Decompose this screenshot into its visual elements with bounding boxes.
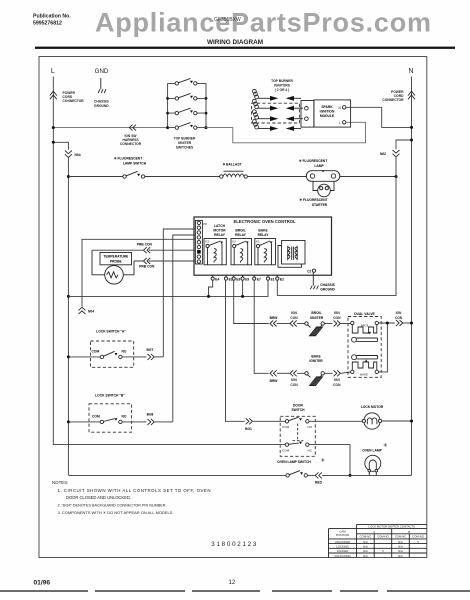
svg-text:CONNECTOR: CONNECTOR xyxy=(382,98,404,102)
wire ballast to fluorescent lamp xyxy=(247,176,306,178)
svg-text:BROIL: BROIL xyxy=(311,311,321,315)
switch row 1 xyxy=(168,78,206,85)
svg-text:✳ FLUORESCENT: ✳ FLUORESCENT xyxy=(299,198,327,202)
svg-text:AppliancePartsPros.com: AppliancePartsPros.com xyxy=(95,8,431,38)
svg-text:UNLOCKING: UNLOCKING xyxy=(334,554,351,558)
fluorescent starter xyxy=(299,181,334,207)
svg-text:SWITCHES: SWITCHES xyxy=(176,146,194,150)
svg-text:SPARK: SPARK xyxy=(321,105,333,109)
svg-text:N04: N04 xyxy=(75,153,81,157)
terminal E1 xyxy=(266,275,274,281)
diagram border frame xyxy=(39,57,427,558)
svg-text:L: L xyxy=(51,68,55,75)
svg-text:BROIL: BROIL xyxy=(235,229,245,233)
svg-text:TOP BURNER: TOP BURNER xyxy=(271,79,293,83)
svg-text:1. CIRCUIT SHOWN WITH ALL CONT: 1. CIRCUIT SHOWN WITH ALL CONTROLS SET T… xyxy=(58,488,211,493)
svg-text:ELECTRONIC OVEN CONTROL: ELECTRONIC OVEN CONTROL xyxy=(233,219,296,224)
svg-text:NO: NO xyxy=(308,425,313,429)
spark module igniter connector xyxy=(301,101,314,128)
svg-text:A: A xyxy=(373,530,375,534)
svg-text:B: B xyxy=(408,530,410,534)
svg-text:N: N xyxy=(338,106,341,110)
ballast xyxy=(220,163,248,179)
svg-text:LOCK MOTOR SWITCH CONTACTS: LOCK MOTOR SWITCH CONTACTS xyxy=(369,525,416,529)
transformer T1 xyxy=(278,241,305,268)
wire xyxy=(277,372,290,374)
lock switch B xyxy=(68,393,146,432)
svg-text:LOCK SWITCH "B": LOCK SWITCH "B" xyxy=(95,393,125,397)
svg-text:N02: N02 xyxy=(380,152,386,156)
connector IGN CON bake right xyxy=(334,370,341,376)
svg-text:N/A: N/A xyxy=(398,540,403,544)
svg-text:OVEN LAMP SWITCH: OVEN LAMP SWITCH xyxy=(277,460,311,464)
svg-text:IGNITER: IGNITER xyxy=(309,359,323,363)
svg-text:N: N xyxy=(408,68,413,75)
svg-text:WIRING DIAGRAM: WIRING DIAGRAM xyxy=(207,39,263,46)
svg-text:RELAY: RELAY xyxy=(258,233,270,237)
connector IGN SW HARNESS xyxy=(129,125,136,131)
svg-text:BG1: BG1 xyxy=(245,427,252,431)
svg-text:X: X xyxy=(382,549,384,553)
broil relay K2 xyxy=(231,229,252,265)
svg-text:PRB CON: PRB CON xyxy=(137,243,153,247)
connector BG8 xyxy=(148,419,155,425)
svg-text:GF355BXW: GF355BXW xyxy=(214,17,241,23)
connector N04 (top) xyxy=(65,151,72,158)
svg-text:5995276812: 5995276812 xyxy=(33,21,62,27)
wire N02 branch from N rail xyxy=(396,140,412,149)
terminal C2 xyxy=(307,269,316,273)
terminal E8 xyxy=(232,275,240,281)
svg-text:K3: K3 xyxy=(205,240,209,244)
svg-text:NO: NO xyxy=(122,350,127,354)
svg-text:COM-NO: COM-NO xyxy=(412,535,424,539)
connector IGN CON bake left xyxy=(290,370,297,376)
svg-text:RED: RED xyxy=(315,481,323,485)
dual valve xyxy=(348,312,381,377)
broil igniter xyxy=(305,311,325,336)
ignitor coil 4 xyxy=(253,120,302,131)
svg-text:PROBE: PROBE xyxy=(110,259,123,263)
temperature probe RT1 xyxy=(92,250,134,284)
terminal E2 xyxy=(276,275,284,281)
svg-text:IGNITER: IGNITER xyxy=(310,316,324,320)
switch row 4 xyxy=(168,123,206,130)
svg-text:BG8: BG8 xyxy=(147,413,154,417)
wire main bus from L to switch ladder xyxy=(53,127,167,129)
connector BRW bake xyxy=(270,370,277,376)
svg-text:RELAY: RELAY xyxy=(235,233,247,237)
oven lamp switch xyxy=(68,457,325,477)
connector PRB CON lower xyxy=(144,258,151,264)
svg-text:TEMPERATURE: TEMPERATURE xyxy=(103,255,129,259)
svg-text:GROUND: GROUND xyxy=(94,104,109,108)
svg-text:COM-NC: COM-NC xyxy=(395,535,407,539)
bake relay K1 xyxy=(255,229,276,265)
svg-text:12: 12 xyxy=(229,580,236,586)
wire lock net to EOC (y296) xyxy=(68,280,268,296)
svg-text:E2: E2 xyxy=(280,278,284,282)
power cord connector N xyxy=(408,91,415,99)
svg-text:CONNECTOR: CONNECTOR xyxy=(120,142,142,146)
latch motor relay K3 xyxy=(204,224,226,265)
top burner igniter switches ladder xyxy=(166,83,207,129)
svg-text:NOTES:: NOTES: xyxy=(52,480,68,485)
svg-text:LAMP SWITCH: LAMP SWITCH xyxy=(123,162,147,166)
svg-text:( 2 OR 4 ): ( 2 OR 4 ) xyxy=(275,88,289,92)
top burner ignitors dashed box xyxy=(252,103,300,123)
footer rule xyxy=(0,590,470,592)
svg-text:CHASSIS: CHASSIS xyxy=(94,100,109,104)
svg-text:OVEN LAMP: OVEN LAMP xyxy=(362,449,382,453)
svg-text:IGNITER: IGNITER xyxy=(178,141,192,145)
connector IGN CON broil left xyxy=(290,321,297,327)
svg-text:BRW: BRW xyxy=(270,316,279,320)
wire spark module N to N rail xyxy=(346,107,412,127)
wire lock B to EOC riser xyxy=(154,421,172,423)
svg-text:01/96: 01/96 xyxy=(34,580,51,587)
svg-text:GROUND: GROUND xyxy=(320,287,335,291)
svg-text:COM-NC: COM-NC xyxy=(360,535,372,539)
svg-text:IGN: IGN xyxy=(291,378,297,382)
svg-text:BAKE: BAKE xyxy=(311,355,321,359)
wire L branch to N04 xyxy=(53,142,68,150)
wire EOC pin row A (from lock switch A) xyxy=(163,229,195,357)
terminal E7 xyxy=(253,275,261,281)
svg-text:NO: NO xyxy=(122,414,127,418)
svg-text:N/A: N/A xyxy=(363,549,368,553)
wire to oven lamp xyxy=(308,474,412,476)
junction E9 net xyxy=(242,280,244,296)
svg-text:✳: ✳ xyxy=(321,457,326,464)
svg-text:IGN: IGN xyxy=(396,311,402,315)
connector BG1 xyxy=(246,418,253,424)
oven lamp xyxy=(362,442,388,475)
svg-text:LATCH: LATCH xyxy=(214,224,226,228)
wire lock rail xyxy=(67,157,69,475)
wire to door switch COM xyxy=(253,420,286,422)
svg-text:DOOR: DOOR xyxy=(293,404,304,408)
wire door NC to oven lamp net xyxy=(309,445,350,476)
svg-text:CON: CON xyxy=(290,383,298,387)
svg-text:✳ FLUORESCENT: ✳ FLUORESCENT xyxy=(299,159,327,163)
wire EOC pin row C (from connector N04 lower) xyxy=(82,239,195,306)
svg-text:SWITCH: SWITCH xyxy=(291,408,305,412)
svg-text:NC: NC xyxy=(308,448,313,452)
wire door NO to lock motor xyxy=(309,420,364,422)
wire valve outputs to N xyxy=(379,323,395,372)
svg-text:COM: COM xyxy=(92,350,100,354)
svg-text:MOTOR: MOTOR xyxy=(213,229,226,233)
EOC edge connector P8 xyxy=(195,220,207,264)
svg-text:L: L xyxy=(339,121,341,125)
svg-text:X: X xyxy=(417,540,419,544)
svg-text:LOCK MOTOR: LOCK MOTOR xyxy=(361,405,384,409)
chassis ground symbol top xyxy=(98,78,106,93)
svg-text:✳ FLUORESCENT: ✳ FLUORESCENT xyxy=(114,157,142,161)
svg-text:N/A: N/A xyxy=(398,554,403,558)
svg-text:LAMP: LAMP xyxy=(314,164,324,168)
svg-text:TOP BURNER: TOP BURNER xyxy=(174,137,196,141)
lock motor switch contacts table xyxy=(329,524,427,557)
svg-text:LOCKED: LOCKED xyxy=(337,549,349,553)
svg-text:COM: COM xyxy=(282,448,290,452)
door switch xyxy=(280,404,315,457)
switch row 3 xyxy=(168,108,206,115)
lock motor M xyxy=(361,405,384,429)
svg-text:IGN: IGN xyxy=(334,378,340,382)
svg-text:N04: N04 xyxy=(88,310,94,314)
svg-text:IGN: IGN xyxy=(334,311,340,315)
svg-text:DUAL VALVE: DUAL VALVE xyxy=(354,312,375,316)
svg-text:K1: K1 xyxy=(256,240,260,244)
power cord connector L xyxy=(50,91,57,99)
svg-text:POSITION: POSITION xyxy=(336,533,349,537)
bake igniter xyxy=(305,355,325,386)
svg-text:MODULE: MODULE xyxy=(320,114,335,118)
svg-text:CON: CON xyxy=(333,316,341,320)
connector RED xyxy=(315,472,322,478)
svg-text:IGN: IGN xyxy=(291,311,297,315)
svg-text:LOCK SWITCH "A": LOCK SWITCH "A" xyxy=(96,330,126,334)
svg-text:BRW: BRW xyxy=(270,379,279,383)
svg-text:N/A: N/A xyxy=(398,549,403,553)
svg-text:2. "BG#" DENOTES BACKGUARD CON: 2. "BG#" DENOTES BACKGUARD CONNECTOR PIN… xyxy=(58,504,167,508)
junction E4 net xyxy=(209,280,213,296)
svg-text:COM: COM xyxy=(282,425,290,429)
svg-text:P8: P8 xyxy=(203,222,207,226)
switch row 2 xyxy=(168,93,206,100)
ignitor coil 1 xyxy=(253,89,302,100)
svg-text:CON: CON xyxy=(290,316,298,320)
svg-text:COM-NO: COM-NO xyxy=(377,535,389,539)
svg-text:CON: CON xyxy=(395,316,403,320)
svg-text:DOOR CLOSED AND UNLOCKED.: DOOR CLOSED AND UNLOCKED. xyxy=(66,495,131,500)
ignitor coil 2 xyxy=(253,99,304,110)
svg-text:LOCKING: LOCKING xyxy=(336,545,349,549)
wire to N rail xyxy=(403,322,412,324)
svg-text:3. COMPONENTS WITH ✳ DO NOT AP: 3. COMPONENTS WITH ✳ DO NOT APPEAR ON AL… xyxy=(58,510,174,515)
lock switch A xyxy=(68,330,146,368)
svg-text:✳: ✳ xyxy=(383,442,388,449)
svg-text:318002123: 318002123 xyxy=(211,541,257,548)
connector N02 xyxy=(393,150,400,157)
svg-text:E7: E7 xyxy=(257,278,261,282)
svg-text:IGNITION: IGNITION xyxy=(320,110,335,114)
connector IGN CON right xyxy=(396,320,403,326)
wire probe lead 1 to PRB CON xyxy=(92,249,195,251)
svg-text:COM: COM xyxy=(92,414,100,418)
ignitor coil 3 xyxy=(253,110,304,121)
wire lamp to N02 rail xyxy=(340,176,396,178)
connector BGT xyxy=(148,354,155,360)
svg-text:RELAY: RELAY xyxy=(214,233,226,237)
wire xyxy=(324,323,332,325)
electronic oven control U2 xyxy=(194,217,332,275)
svg-text:N/A: N/A xyxy=(363,545,368,549)
wire probe lead 2 to PRB CON xyxy=(134,260,195,262)
svg-text:N/A: N/A xyxy=(398,545,403,549)
svg-text:BAKE: BAKE xyxy=(360,373,368,377)
wire lock A to EOC riser xyxy=(154,356,163,358)
svg-text:PRB CON: PRB CON xyxy=(139,265,155,269)
svg-text:C2: C2 xyxy=(307,269,311,273)
wire xyxy=(324,372,332,374)
wire EOC pin row B (from lock switch B) xyxy=(173,235,196,422)
notes xyxy=(52,480,211,515)
svg-text:BAKE: BAKE xyxy=(258,229,268,233)
svg-text:GND: GND xyxy=(95,68,109,75)
wire xyxy=(277,323,290,325)
connector PRB CON upper xyxy=(144,247,151,253)
svg-text:STARTER: STARTER xyxy=(312,203,328,207)
fluorescent lamp switch SW xyxy=(68,157,146,179)
svg-text:UNLOCKED: UNLOCKED xyxy=(335,540,351,544)
connector BRW broil xyxy=(270,321,277,327)
connector N04 (lower) xyxy=(79,307,86,314)
wire xyxy=(297,323,305,325)
svg-text:N/A: N/A xyxy=(363,540,368,544)
svg-text:E4: E4 xyxy=(215,278,219,282)
svg-text:E8: E8 xyxy=(236,278,240,282)
svg-text:E9: E9 xyxy=(245,278,249,282)
wire bus to spark module L xyxy=(206,122,366,143)
wire N rail xyxy=(411,77,413,476)
svg-text:CHASSIS: CHASSIS xyxy=(320,283,335,287)
wire L rail xyxy=(53,77,285,445)
connector IGN CON broil right xyxy=(334,321,341,327)
svg-text:BGT: BGT xyxy=(147,348,154,352)
wire to ballast xyxy=(145,176,220,178)
svg-text:K2: K2 xyxy=(232,240,236,244)
wire xyxy=(297,372,305,374)
wire to dual valve bake xyxy=(341,372,351,373)
wire E8 to broil igniter row xyxy=(234,280,269,323)
wire lock motor to N rail xyxy=(382,420,412,422)
svg-text:E1: E1 xyxy=(271,278,275,282)
chassis ground at C2 xyxy=(310,272,335,291)
svg-text:BROIL: BROIL xyxy=(361,324,370,328)
svg-text:N/A: N/A xyxy=(363,554,368,558)
fluorescent lamp xyxy=(299,159,340,181)
svg-text:CONNECTOR: CONNECTOR xyxy=(63,99,85,103)
terminal E9 xyxy=(241,275,249,281)
wire E7 to bake igniter row xyxy=(254,280,269,373)
top burner ignitors label xyxy=(271,79,293,92)
svg-text:✳ BALLAST: ✳ BALLAST xyxy=(222,163,241,167)
svg-text:CON: CON xyxy=(333,383,341,387)
spark ignition module U1 xyxy=(314,100,351,127)
terminal E4 xyxy=(211,275,219,281)
wire E3 to door switch xyxy=(226,280,245,421)
header publication number xyxy=(33,14,71,27)
wire to dual valve xyxy=(341,323,351,325)
svg-text:IGNITORS: IGNITORS xyxy=(274,84,291,88)
wire N02 rail down to E2 xyxy=(277,157,396,296)
svg-text:Publication No.: Publication No. xyxy=(33,14,71,20)
header rule xyxy=(35,47,455,49)
terminal E3 xyxy=(224,275,232,281)
